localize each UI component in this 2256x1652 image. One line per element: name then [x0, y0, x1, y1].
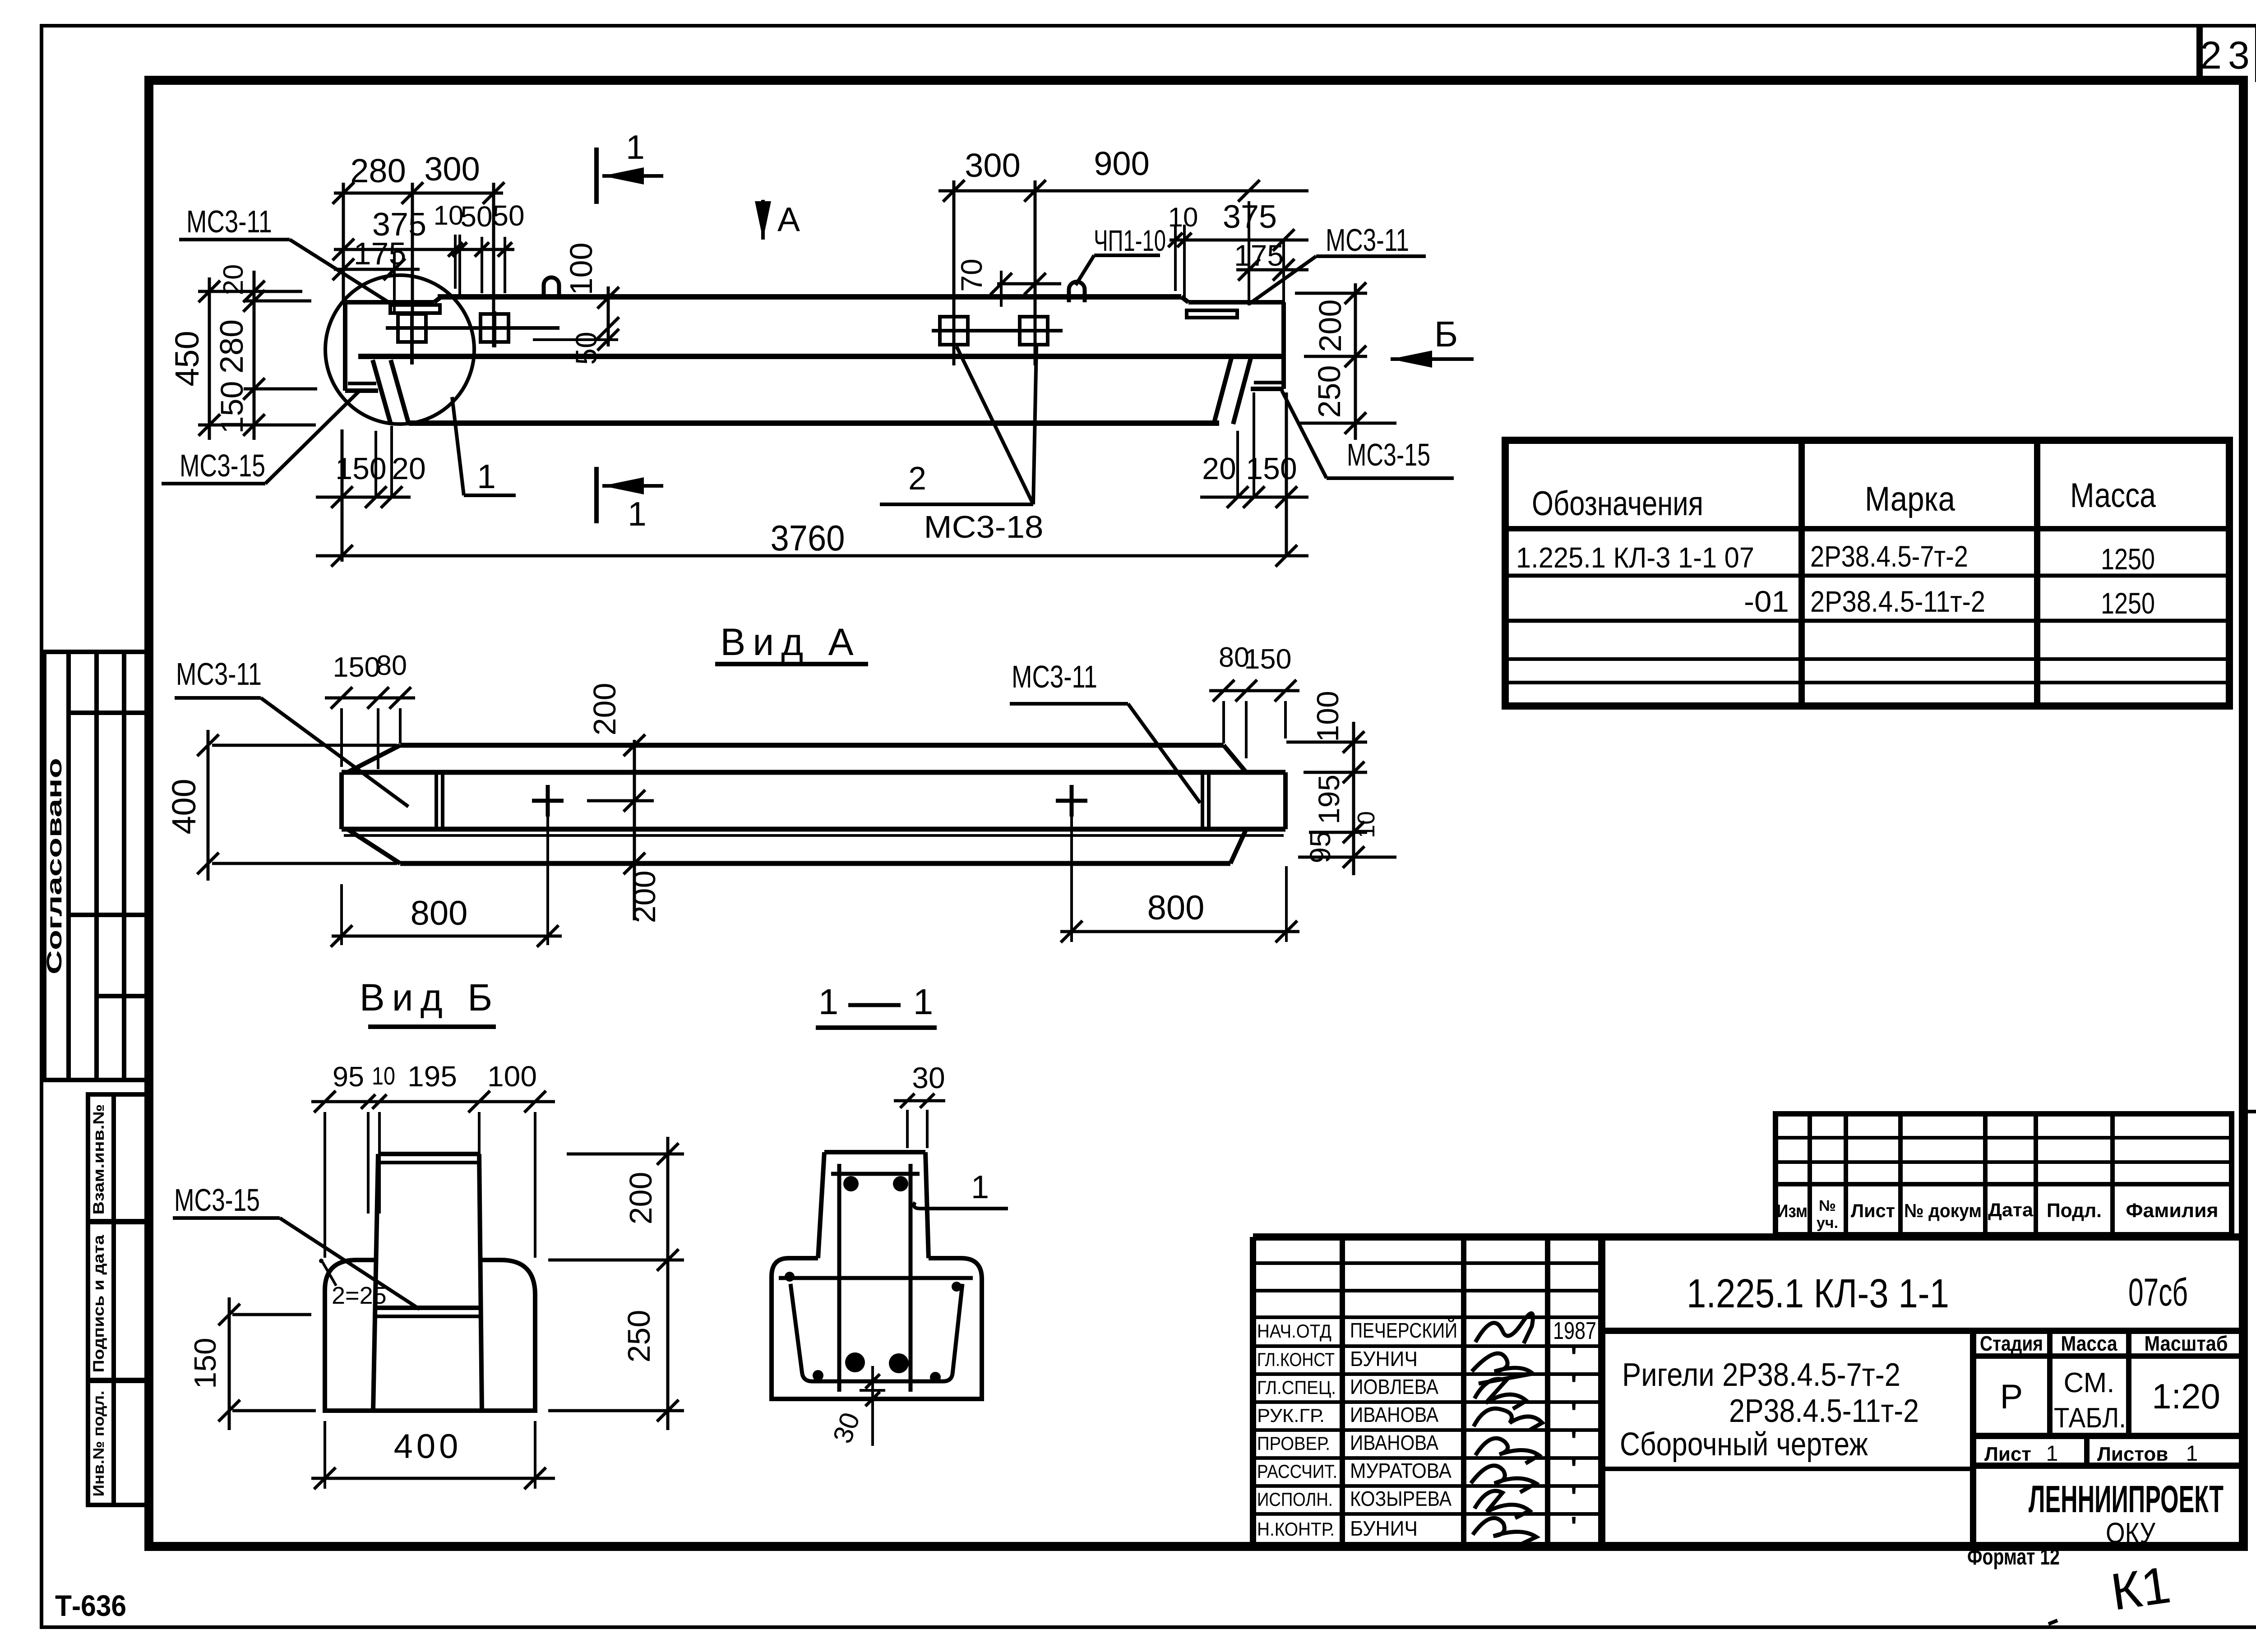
beam left end edge: [343, 302, 347, 391]
svg-text:800: 800: [411, 894, 468, 932]
svg-text:195: 195: [1312, 775, 1345, 824]
svg-text:Лист: Лист: [1851, 1200, 1895, 1221]
embedded plate MS3-15 left: [348, 382, 376, 385]
designation table row lines: [1505, 574, 2229, 578]
svg-text:400: 400: [394, 1427, 462, 1466]
svg-text:100: 100: [487, 1060, 537, 1093]
svg-text:': ': [1571, 1454, 1577, 1484]
embedded plate MS3-11 left: [390, 305, 440, 313]
dim 70 right mid: [997, 282, 1061, 286]
svg-text:280: 280: [350, 152, 406, 189]
svg-text:ПРОВЕР.: ПРОВЕР.: [1257, 1433, 1330, 1454]
svg-text:': ': [1571, 1370, 1577, 1400]
approval block Soglasovano: [44, 652, 149, 1080]
plan top edge: [400, 743, 1224, 748]
svg-text:ЧП1-10: ЧП1-10: [1094, 224, 1166, 257]
svg-text:1: 1: [477, 457, 496, 495]
svg-text:ОКУ: ОКУ: [2106, 1517, 2155, 1549]
section stirrup web: [837, 1164, 841, 1392]
svg-text:Б: Б: [1434, 314, 1458, 354]
dim 20-150 bottom right: [1200, 496, 1308, 499]
svg-text:07сб: 07сб: [2128, 1271, 2188, 1314]
svg-text:уч.: уч.: [1817, 1214, 1838, 1232]
title block top border: [1253, 1233, 2243, 1241]
svg-text:800: 800: [1147, 889, 1205, 927]
section flange stirrup: [791, 1284, 802, 1374]
embedded plate MS3-11 right: [1187, 310, 1237, 318]
svg-text:1.225.1 КЛ-3 1-1: 1.225.1 КЛ-3 1-1: [1687, 1271, 1949, 1316]
svg-text:70: 70: [955, 258, 988, 291]
view arrow A: [761, 200, 765, 240]
svg-text:2Р38.4.5-7т-2: 2Р38.4.5-7т-2: [1810, 540, 1968, 573]
svg-text:ИВАНОВА: ИВАНОВА: [1350, 1403, 1438, 1426]
svg-text:': ': [1571, 1511, 1577, 1541]
svg-text:МС3-11: МС3-11: [1012, 659, 1097, 694]
svg-text:Вид А: Вид А: [720, 621, 860, 663]
svg-text:Сборочный чертеж: Сборочный чертеж: [1620, 1426, 1868, 1463]
dim 200 plan centre: [633, 740, 636, 920]
svg-text:195: 195: [407, 1060, 457, 1093]
plate MS3-11 plan right: [1201, 772, 1204, 829]
svg-text:2Р38.4.5-11т-2: 2Р38.4.5-11т-2: [1729, 1393, 1919, 1429]
svg-text:Масса: Масса: [2061, 1332, 2117, 1355]
svg-text:Ригели 2Р38.4.5-7т-2: Ригели 2Р38.4.5-7т-2: [1622, 1357, 1900, 1393]
svg-text:200: 200: [623, 1172, 658, 1225]
svg-text:100: 100: [1311, 691, 1345, 742]
svg-text:А: А: [777, 200, 800, 238]
dim 400 end view: [311, 1477, 555, 1480]
dim 175 right: [1236, 268, 1308, 272]
dim 95-10-195-100 end view: [311, 1100, 555, 1103]
plan right end: [1283, 772, 1288, 829]
dim 100-50 mid: [607, 286, 610, 346]
dim 400 plan: [207, 730, 210, 881]
svg-text:1: 1: [2046, 1442, 2058, 1466]
svg-text:1250: 1250: [2101, 542, 2155, 576]
view arrow B: [1391, 357, 1474, 361]
section flange bar: [779, 1276, 973, 1280]
svg-text:3760: 3760: [771, 518, 845, 558]
svg-text:Формат 12: Формат 12: [1967, 1544, 2060, 1569]
svg-text:Р: Р: [2000, 1378, 2023, 1416]
dim 800 plan left: [332, 935, 562, 938]
beam right dap diagonals: [1214, 358, 1231, 424]
anchor square 4: [1020, 317, 1048, 345]
svg-text:НАЧ.ОТД: НАЧ.ОТД: [1257, 1320, 1331, 1342]
svg-text:БУНИЧ: БУНИЧ: [1350, 1517, 1418, 1540]
plan band bottom line: [342, 827, 1285, 832]
svg-text:Изм: Изм: [1777, 1201, 1808, 1221]
section mark 1 bottom: [594, 467, 599, 523]
svg-text:ИСПОЛН.: ИСПОЛН.: [1257, 1489, 1333, 1510]
lifting loop right ChP1-10: [1069, 282, 1085, 303]
loop cross left plan: [532, 799, 564, 803]
svg-text:Марка: Марка: [1865, 480, 1956, 518]
signature table verticals: [1250, 1237, 1256, 1546]
plan bottom edge: [400, 861, 1230, 866]
dim 375-10-50-50: [334, 248, 514, 251]
svg-text:10: 10: [434, 200, 464, 231]
svg-text:1: 1: [971, 1169, 989, 1205]
stage mass scale header: [1970, 1331, 1976, 1546]
svg-text:20: 20: [392, 452, 426, 486]
dim 150-80 plan left: [325, 697, 415, 700]
svg-text:КОЗЫРЕВА: КОЗЫРЕВА: [1350, 1487, 1452, 1510]
svg-text:250: 250: [621, 1310, 656, 1363]
svg-text:Фамилия: Фамилия: [2126, 1200, 2219, 1222]
beam left top recess: [345, 300, 434, 305]
designation table frame: [1505, 440, 2229, 706]
svg-text:80: 80: [376, 650, 407, 681]
svg-text:23: 23: [2200, 34, 2256, 77]
beam left dap bottom: [345, 388, 378, 393]
dim 100-195-10-95 plan right: [1352, 722, 1355, 875]
dim 300-900 top right: [938, 189, 1308, 193]
svg-text:175: 175: [354, 236, 407, 271]
svg-text:20: 20: [1202, 452, 1236, 486]
svg-text:400: 400: [165, 779, 203, 834]
svg-text:': ': [1571, 1481, 1577, 1512]
svg-text:2Р38.4.5-11т-2: 2Р38.4.5-11т-2: [1810, 585, 1985, 618]
svg-text:РУК.ГР.: РУК.ГР.: [1257, 1405, 1325, 1426]
svg-text:150: 150: [188, 1338, 222, 1389]
svg-text:250: 250: [1312, 365, 1347, 418]
dim 450 left: [208, 277, 211, 440]
svg-text:Инв.№ подл.: Инв.№ подл.: [90, 1391, 107, 1497]
svg-text:150: 150: [1244, 644, 1292, 675]
dim 200-250 end view: [666, 1137, 670, 1430]
svg-text:375: 375: [1223, 199, 1277, 235]
svg-text:ЛЕННИИПРОЕКТ: ЛЕННИИПРОЕКТ: [2029, 1478, 2224, 1520]
dim 280-300 top left: [334, 192, 503, 195]
svg-text:': ': [1571, 1426, 1577, 1456]
revision table columns: [1808, 1114, 1812, 1235]
anchor square 1: [398, 314, 426, 342]
designation table columns: [1798, 440, 1805, 706]
dim 150 end view: [228, 1297, 231, 1430]
svg-text:МС3-11: МС3-11: [176, 656, 262, 692]
end view web: [378, 1152, 479, 1156]
svg-text:№: №: [1819, 1197, 1836, 1214]
svg-text:Стадия: Стадия: [1980, 1332, 2043, 1355]
section bottom rebar: [813, 1370, 823, 1381]
plan band top line: [342, 770, 1285, 775]
dim 150-20 bottom left: [316, 496, 411, 499]
svg-text:МС3-11: МС3-11: [1326, 222, 1409, 258]
svg-text:МС3-11: МС3-11: [186, 204, 272, 239]
dim 10-375 right: [1170, 239, 1308, 242]
dim 3760: [316, 554, 1308, 558]
svg-text:ТАБЛ.: ТАБЛ.: [2054, 1403, 2126, 1434]
beam elevation top edge: [438, 294, 1181, 300]
svg-text:200: 200: [1313, 300, 1348, 352]
svg-text:300: 300: [965, 147, 1020, 184]
svg-text:Согласовано: Согласовано: [42, 758, 66, 974]
plan left chamfers: [347, 745, 400, 772]
beam right end edge: [1281, 302, 1286, 389]
svg-text:200: 200: [627, 871, 662, 923]
dim 20-280-150 left: [253, 271, 256, 440]
svg-text:Подл.: Подл.: [2047, 1200, 2102, 1222]
plan left end: [339, 772, 344, 829]
svg-text:450: 450: [168, 331, 206, 386]
svg-text:МУРАТОВА: МУРАТОВА: [1350, 1459, 1452, 1482]
section mark 1 top: [594, 148, 599, 204]
svg-text:200: 200: [587, 683, 622, 736]
svg-text:10: 10: [1353, 811, 1380, 838]
svg-text:Взам.инв.№: Взам.инв.№: [90, 1104, 107, 1215]
end view plate MS3-15: [373, 1306, 481, 1310]
svg-text:50: 50: [492, 199, 524, 232]
anchor square 2: [481, 314, 509, 342]
svg-text:Дата: Дата: [1988, 1199, 2034, 1220]
svg-text:1: 1: [818, 982, 839, 1022]
dim 175 left: [334, 268, 420, 271]
svg-text:150: 150: [333, 652, 380, 683]
svg-text:ПЕЧЕРСКИЙ: ПЕЧЕРСКИЙ: [1350, 1319, 1457, 1342]
svg-text:Обозначения: Обозначения: [1532, 485, 1703, 523]
beam left dap diagonals: [373, 360, 391, 424]
svg-text:СМ.: СМ.: [2064, 1367, 2115, 1398]
section top rebar: [843, 1176, 859, 1191]
beam right top recess: [1181, 297, 1188, 302]
svg-text:Масштаб: Масштаб: [2145, 1332, 2228, 1355]
svg-text:Листов: Листов: [2097, 1443, 2168, 1465]
svg-text:900: 900: [1094, 145, 1149, 182]
beam ledge line: [358, 354, 1284, 359]
svg-text:50: 50: [569, 332, 603, 365]
svg-text:МС3-15: МС3-15: [174, 1182, 260, 1218]
svg-text:Н.КОНТР.: Н.КОНТР.: [1257, 1518, 1335, 1540]
plate MS3-11 plan left: [435, 772, 438, 829]
section web outline: [824, 1150, 925, 1154]
svg-text:175: 175: [1234, 239, 1284, 272]
svg-text:ГЛ.КОНСТ: ГЛ.КОНСТ: [1257, 1349, 1335, 1370]
lifting loop left: [544, 277, 559, 297]
svg-text:1: 1: [628, 495, 647, 533]
embedded plate MS3-15 right: [1254, 381, 1281, 384]
svg-text:1: 1: [626, 128, 645, 166]
svg-text:': ': [1571, 1342, 1577, 1372]
plan thin line: [344, 834, 1284, 837]
section flange outline: [772, 1258, 982, 1399]
svg-text:2: 2: [908, 461, 926, 497]
svg-text:БУНИЧ: БУНИЧ: [1350, 1347, 1418, 1371]
svg-text:МС3-15: МС3-15: [180, 448, 265, 483]
svg-text:50: 50: [460, 200, 492, 233]
loop cross right plan: [1056, 799, 1087, 803]
dim 800 plan right: [1060, 930, 1299, 933]
svg-text:280: 280: [214, 319, 250, 374]
svg-text:Подпись и дата: Подпись и дата: [90, 1234, 107, 1372]
inventory block: [88, 1094, 149, 1505]
sheet number box 23: [2196, 26, 2203, 81]
svg-text:2=25: 2=25: [332, 1282, 387, 1309]
svg-text:РАССЧИТ.: РАССЧИТ.: [1257, 1461, 1337, 1482]
svg-text:Лист: Лист: [1984, 1443, 2031, 1465]
revision table frame: [1775, 1114, 2232, 1235]
revision table rows: [1775, 1136, 2232, 1140]
end view flange outline: [325, 1260, 535, 1411]
svg-text:': ': [1571, 1398, 1577, 1428]
svg-text:1.225.1 КЛ-3 1-1 07: 1.225.1 КЛ-3 1-1 07: [1516, 541, 1754, 574]
svg-text:ГЛ.СПЕЦ.: ГЛ.СПЕЦ.: [1257, 1377, 1336, 1398]
plan right chamfers: [1224, 745, 1246, 772]
anchor square 3: [940, 317, 968, 345]
svg-text:1:20: 1:20: [2152, 1376, 2220, 1416]
dim 200 right side elevation: [1354, 283, 1357, 440]
detail circle: [325, 275, 474, 424]
svg-text:1: 1: [2186, 1442, 2198, 1466]
svg-text:Масса: Масса: [2070, 476, 2156, 515]
svg-text:МС3-15: МС3-15: [1347, 437, 1430, 472]
svg-text:ИВАНОВА: ИВАНОВА: [1350, 1431, 1438, 1454]
svg-text:Т-636: Т-636: [55, 1589, 126, 1622]
svg-text:№ докум: № докум: [1904, 1200, 1982, 1221]
svg-text:МС3-18: МС3-18: [924, 509, 1044, 545]
signature table rows: [1253, 1261, 1602, 1265]
svg-text:Вид Б: Вид Б: [360, 976, 499, 1019]
svg-text:1250: 1250: [2101, 586, 2155, 620]
dim 80-150 plan right: [1209, 689, 1299, 692]
svg-text:10: 10: [372, 1061, 395, 1090]
svg-text:К1: К1: [2108, 1556, 2174, 1621]
designation table header line: [1505, 526, 2229, 531]
svg-text:ИОВЛЕВА: ИОВЛЕВА: [1350, 1375, 1438, 1398]
svg-text:1987: 1987: [1553, 1317, 1596, 1344]
svg-text:30: 30: [912, 1061, 945, 1094]
svg-text:100: 100: [564, 243, 599, 295]
svg-text:-01: -01: [1744, 585, 1789, 618]
svg-text:300: 300: [424, 150, 480, 188]
beam bottom edge: [409, 420, 1219, 426]
signature scribbles: [1475, 1313, 1533, 1343]
svg-text:95: 95: [333, 1061, 364, 1093]
svg-text:1: 1: [913, 982, 934, 1022]
